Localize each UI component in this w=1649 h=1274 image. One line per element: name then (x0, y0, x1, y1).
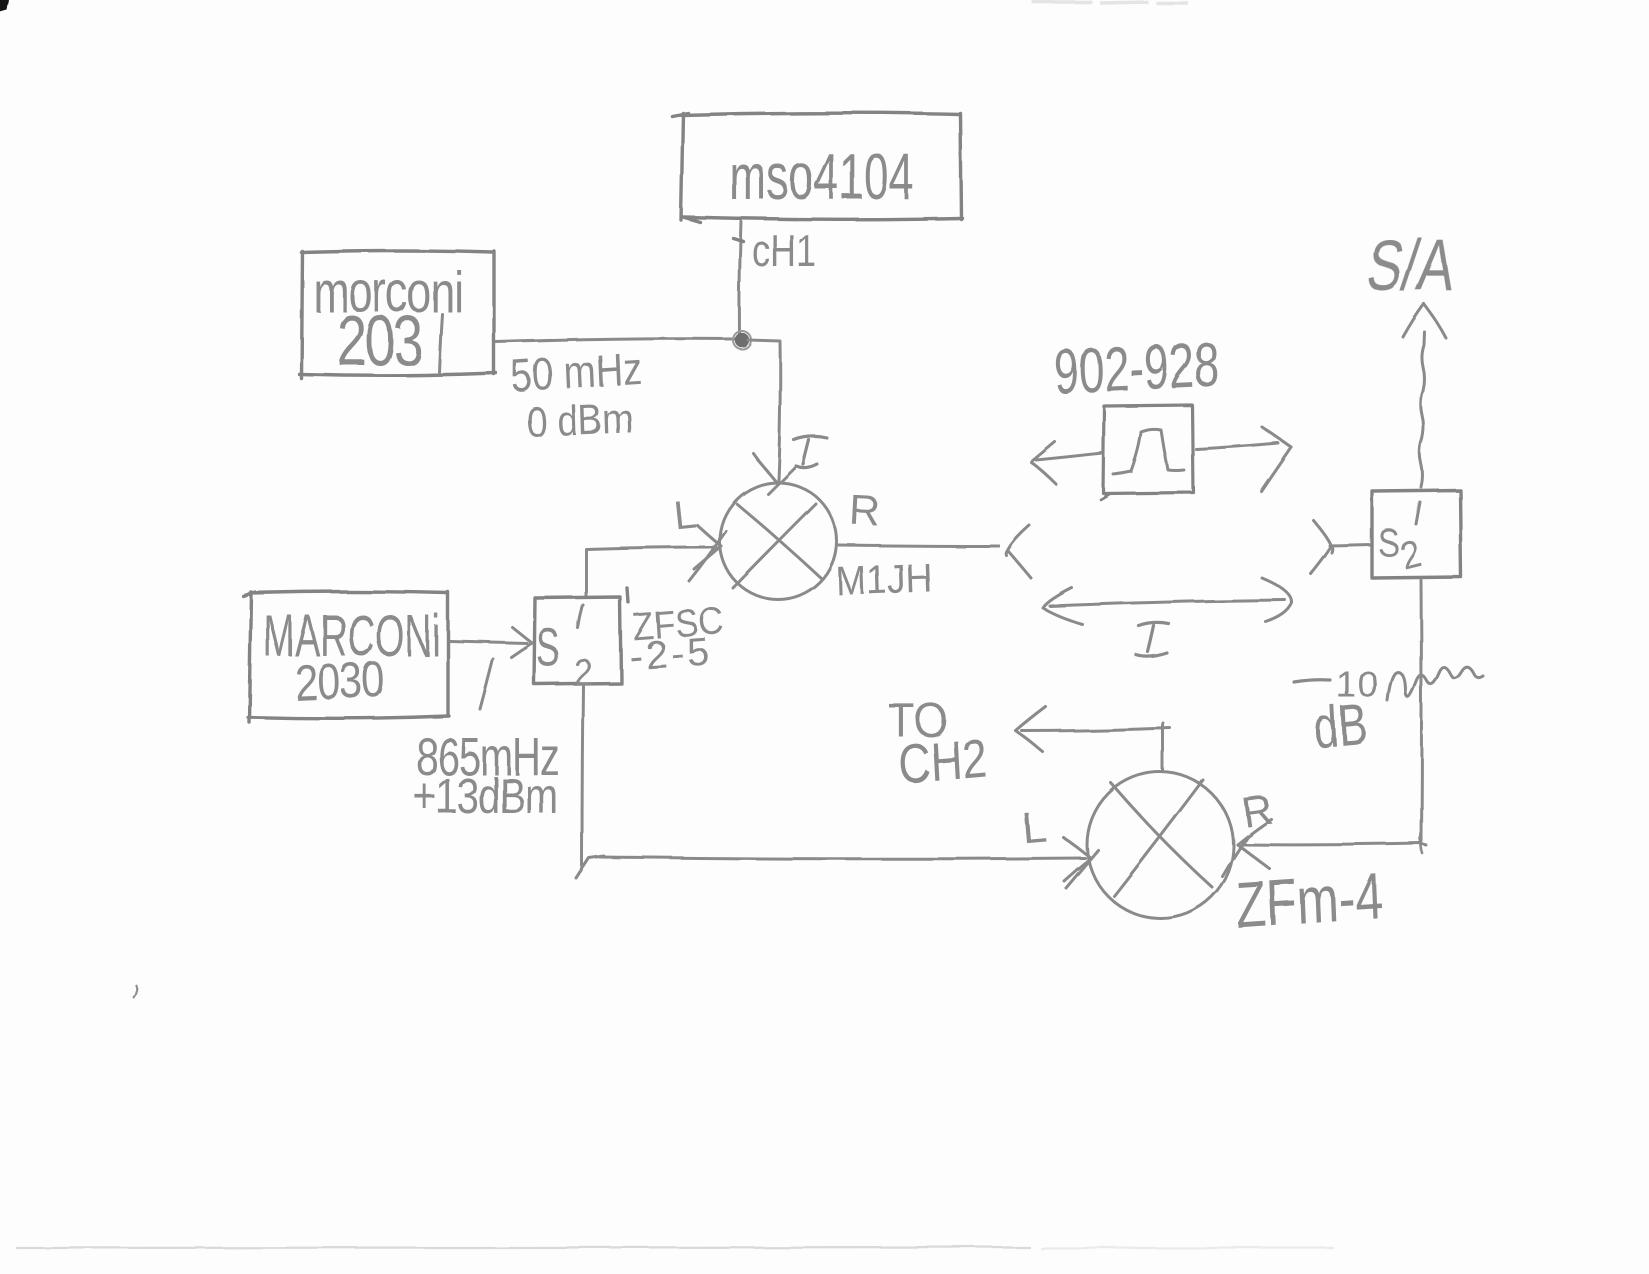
svg-text:2030: 2030 (294, 651, 385, 711)
mixer U1 M1JH circle (720, 483, 837, 600)
arrowhead to CH2 (1016, 707, 1046, 752)
pin label I (mixer1) (794, 436, 827, 467)
wire mixer R output (837, 545, 999, 546)
wire Marconi2030 to splitter input (450, 641, 527, 643)
scan artifact: faint bottom line (16, 1247, 1334, 1248)
splitter U6 ZFSC box (534, 597, 621, 684)
wire splitter S2 to spectrum analyzer (wavy) (1420, 332, 1425, 487)
svg-text:mso4104: mso4104 (729, 140, 914, 213)
svg-text:902-928: 902-928 (1054, 328, 1221, 407)
svg-text:R: R (1239, 785, 1276, 836)
arrowhead into splitter S (511, 627, 532, 657)
junction node dot (733, 331, 751, 349)
svg-text:2: 2 (1396, 532, 1426, 579)
svg-text:dB: dB (1312, 692, 1369, 761)
svg-text:S: S (536, 617, 560, 678)
signal generator U2 Marconi 2031 box (299, 238, 743, 378)
wire splitter port2 down to bottom bus (582, 686, 583, 866)
attenuator squiggle (1388, 667, 1483, 701)
IF double arrow I (1043, 578, 1292, 624)
wire Y to splitter S2 (1330, 545, 1371, 546)
connector Y (end of R cable) (1007, 526, 1032, 579)
wire ZFM-4 I output up and left to CH2 (1022, 723, 1170, 772)
svg-text:-2-5: -2-5 (628, 629, 714, 679)
scan artifact: black corner top-left (0, 0, 9, 12)
splitter S2 box (1372, 490, 1461, 578)
wire bottom bus to ZFM-4 L (576, 856, 1085, 878)
connector Y into splitter S2 (1311, 520, 1333, 574)
pin tick 1 (splitter ZFSC) (578, 605, 583, 628)
tall 1 of 2031 (439, 314, 442, 373)
arrowhead into mixer I (753, 453, 796, 494)
cable slash mark (480, 659, 493, 709)
svg-text:R: R (849, 486, 882, 535)
svg-text:L: L (1020, 802, 1049, 853)
signal generator U5 Marconi 2030 box (243, 588, 628, 722)
net label I (IF) (1136, 623, 1169, 657)
wire attenuator to ZFM-4 R input (1243, 843, 1426, 845)
svg-text:CH2: CH2 (897, 727, 988, 796)
filter response curve (1113, 429, 1184, 474)
svg-text:50 mHz: 50 mHz (510, 343, 643, 402)
svg-text:S/A: S/A (1362, 224, 1460, 305)
svg-text:+13dBm: +13dBm (413, 768, 557, 824)
wire Marconi2031 to junction (496, 339, 735, 342)
wire splitter S2 port2 down to attenuation point (1420, 580, 1424, 842)
arrowhead into ZFM-4 L (1063, 837, 1098, 888)
svg-text:203: 203 (337, 302, 422, 380)
arrowhead into ZFM-4 R (1222, 819, 1271, 876)
pin tick 1 (splitter S2) (1416, 502, 1420, 524)
svg-text:0 dBm: 0 dBm (526, 395, 634, 446)
arrowhead up to S/A (1403, 304, 1446, 338)
wire CH1 drop from scope (739, 221, 741, 334)
svg-text:ZFm-4: ZFm-4 (1235, 861, 1385, 943)
filter right arrow (1196, 427, 1291, 491)
oscilloscope U3 MSO4104 box (672, 113, 962, 222)
mixer U4 ZFM-4 circle (1087, 772, 1233, 918)
svg-text:M1JH: M1JH (835, 556, 933, 605)
scan artifact: small comma mark (133, 984, 137, 998)
bandpass filter FL1 902-928 box (1100, 405, 1193, 499)
scan artifact: faint top edge dashes (1032, 2, 1188, 3)
wire junction to mixer I input (748, 340, 780, 480)
mixer U1 X cross (737, 504, 822, 579)
value label -10 (1294, 680, 1330, 682)
wire splitter port1 to mixer L (586, 547, 716, 597)
mixer U4 X cross (1111, 783, 1212, 887)
svg-text:L: L (671, 492, 698, 538)
arrowhead into mixer L (689, 525, 726, 581)
svg-text:cH1: cH1 (752, 225, 816, 276)
filter left arrow (1031, 442, 1102, 484)
